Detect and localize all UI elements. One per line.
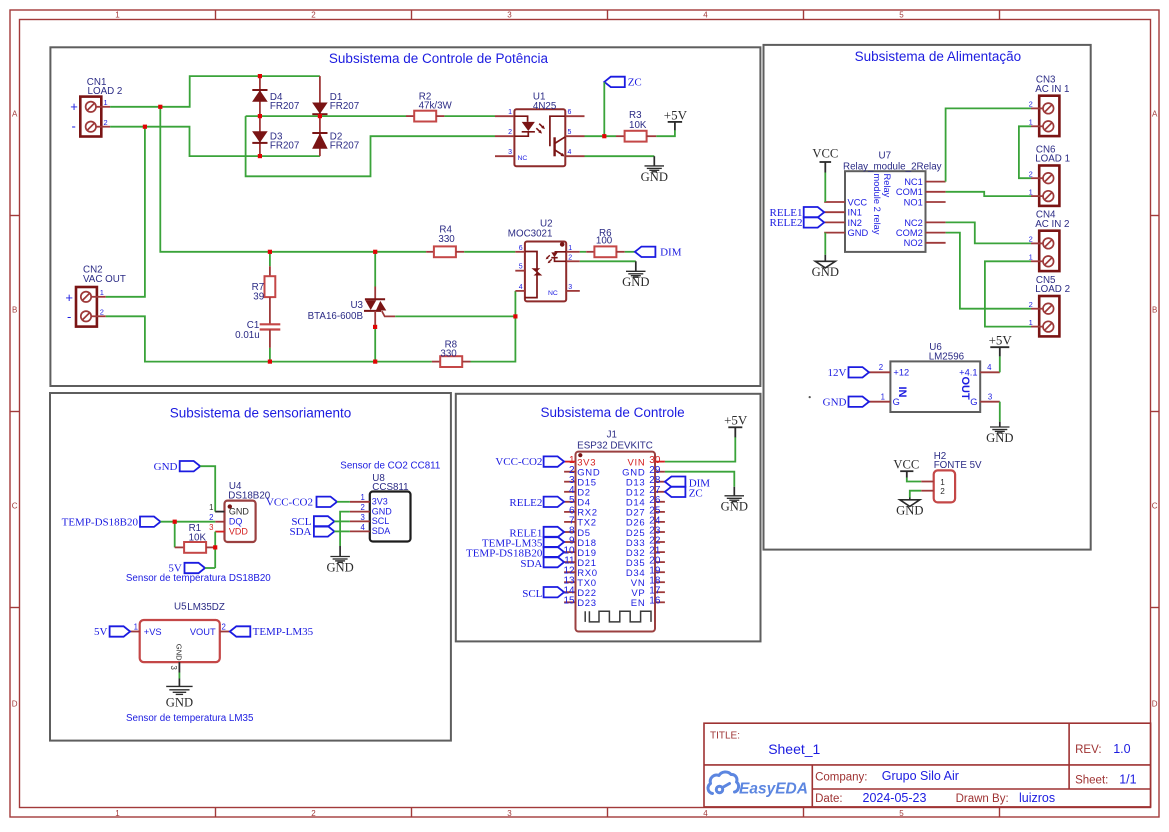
J1 pin 13 TX0 xyxy=(564,581,575,583)
sensor U5 LM35DZ xyxy=(140,620,220,662)
ground GND (U7) xyxy=(824,255,826,261)
svg-text:5: 5 xyxy=(568,129,572,136)
net flag RELE1 (J1) xyxy=(544,527,565,537)
svg-text:IN: IN xyxy=(896,387,908,398)
svg-text:DQ: DQ xyxy=(229,517,243,527)
svg-text:IN1: IN1 xyxy=(848,208,862,218)
wire COM2 to CN5.2 xyxy=(946,233,1031,309)
U1 internal light arrows xyxy=(539,124,543,128)
U1 pin 3 NC xyxy=(495,155,514,157)
J1 pin 26 D14 xyxy=(655,501,665,503)
wire U2 pin1 to R6 xyxy=(580,251,586,253)
svg-text:1: 1 xyxy=(104,98,108,107)
wire COM1 to CN6.1 xyxy=(946,192,1031,196)
J1 pin 17 VP xyxy=(655,591,665,593)
svg-text:FR207: FR207 xyxy=(270,101,299,112)
U1 pin 4 xyxy=(565,155,584,157)
J1 pin 15 D23 xyxy=(564,601,575,603)
U7 pin IN2 xyxy=(824,221,845,223)
wire CN2.1 riser to CN1.2 xyxy=(106,127,145,297)
svg-text:1: 1 xyxy=(100,288,104,297)
U2 pin 4 xyxy=(515,290,525,292)
svg-text:NO2: NO2 xyxy=(904,238,923,248)
U3 gate lead xyxy=(382,311,395,316)
svg-text:4: 4 xyxy=(703,809,708,818)
svg-text:NC: NC xyxy=(518,155,528,162)
U6 pin 1 G xyxy=(869,401,890,403)
wire U5 pin3 to GND xyxy=(178,673,180,679)
svg-text:SCL: SCL xyxy=(522,588,542,600)
capacitor C1 0.01u xyxy=(260,323,281,325)
J1 pin 18 VN xyxy=(655,581,665,583)
CN2 pin 1 xyxy=(91,296,106,298)
svg-text:REV:: REV: xyxy=(1075,744,1101,756)
U7 pin GND xyxy=(824,232,845,234)
wire CN1.1 to top rail xyxy=(110,76,320,107)
svg-text:GND: GND xyxy=(174,644,183,661)
power VCC (H2) xyxy=(900,470,913,472)
net flag DIM (J1) xyxy=(665,477,686,487)
header H2 FONTE 5V xyxy=(934,470,955,502)
U8 pin 1 3V3 xyxy=(350,501,370,503)
U2 pin1 polarity dot xyxy=(560,242,565,247)
J1 pin 7 TX2 xyxy=(564,521,575,523)
svg-text:AC IN 1: AC IN 1 xyxy=(1035,84,1069,95)
svg-text:4: 4 xyxy=(568,149,572,156)
wire VCC to U7 xyxy=(824,173,826,203)
svg-text:D23: D23 xyxy=(577,598,597,609)
net flag TEMP-DS18B20 xyxy=(140,517,161,527)
svg-text:GND: GND xyxy=(229,506,250,516)
svg-text:NC2: NC2 xyxy=(904,218,923,228)
svg-text:B: B xyxy=(12,306,17,315)
svg-text:Relay: Relay xyxy=(882,174,892,198)
regulator U6 LM2596 xyxy=(890,361,980,412)
svg-text:LM2596: LM2596 xyxy=(929,351,965,362)
wire CN2.2 to bottom rail xyxy=(106,316,432,361)
J1 pin 21 D32 xyxy=(655,551,665,553)
stray dot xyxy=(809,396,811,398)
svg-text:FR207: FR207 xyxy=(330,140,359,151)
U6 pin 3 G xyxy=(980,401,1000,403)
J1 pin 14 D22 xyxy=(564,591,575,593)
U4 pin1 dot xyxy=(228,504,232,508)
svg-text:SDA: SDA xyxy=(520,558,542,570)
triac U3 BTA16-600B xyxy=(374,252,376,287)
svg-text:2: 2 xyxy=(508,129,512,136)
wire U3 to bottom rail xyxy=(374,325,376,362)
svg-text:10K: 10K xyxy=(629,120,647,131)
U1 internal phototransistor xyxy=(550,116,565,146)
ground GND (U6) xyxy=(999,422,1001,427)
J1 pin 5 D4 xyxy=(564,501,575,503)
svg-text:NC1: NC1 xyxy=(904,177,923,187)
svg-text:1: 1 xyxy=(568,245,572,252)
J1 pin 24 D26 xyxy=(655,521,665,523)
resistor R7 39 (vertical) xyxy=(269,252,271,266)
U4 pin 2 DQ xyxy=(215,521,224,523)
J1 pin 10 D19 xyxy=(564,551,575,553)
svg-text:Company:: Company: xyxy=(815,772,867,784)
U2 internal LED xyxy=(551,252,566,261)
U7 pin IN1 xyxy=(824,211,845,213)
U2 internal light arrows xyxy=(547,255,550,258)
svg-text:GND: GND xyxy=(896,503,923,517)
J1 pin 12 RX0 xyxy=(564,571,575,573)
wire CN3.1 to CN6.2 xyxy=(1019,126,1031,178)
U2 pin 5 xyxy=(515,270,525,272)
svg-text:+VS: +VS xyxy=(144,627,162,637)
svg-text:5: 5 xyxy=(519,264,523,271)
svg-text:Grupo Silo Air: Grupo Silo Air xyxy=(882,769,959,783)
net flag RELE2 (U7) xyxy=(804,217,825,227)
wire GND pin29 xyxy=(665,472,734,487)
wire GND flag to U4 pin1 xyxy=(200,466,215,511)
svg-text:330: 330 xyxy=(438,234,455,245)
U1 pin 2 xyxy=(495,135,514,137)
resistor R8 330 xyxy=(432,361,440,363)
svg-text:Sheet_1: Sheet_1 xyxy=(768,741,820,757)
svg-text:-: - xyxy=(67,309,71,324)
svg-text:ZC: ZC xyxy=(628,77,642,89)
svg-text:U5: U5 xyxy=(174,601,187,612)
resistor R4 330 xyxy=(426,251,434,253)
svg-text:2: 2 xyxy=(311,809,316,818)
U7 pin COM2 xyxy=(926,232,946,234)
svg-text:330: 330 xyxy=(440,348,457,359)
svg-text:D: D xyxy=(1152,700,1158,709)
svg-text:2: 2 xyxy=(568,254,572,261)
svg-text:6: 6 xyxy=(519,245,523,252)
U1 internal LED xyxy=(514,116,535,136)
J1 pin 30 VIN xyxy=(655,461,665,463)
U7 pin COM1 xyxy=(926,191,946,193)
svg-text:VCC: VCC xyxy=(812,146,838,160)
svg-text:4N25: 4N25 xyxy=(533,101,557,112)
svg-text:NC: NC xyxy=(548,290,558,297)
subsystem box: Subsistema de Alimentacao xyxy=(764,45,1091,550)
svg-text:1.0: 1.0 xyxy=(1113,742,1130,756)
svg-text:ZC: ZC xyxy=(689,488,703,500)
H2 pin 1 xyxy=(921,481,934,483)
net flag SCL (J1) xyxy=(544,587,565,597)
subsystem box: Subsistema de sensoriamento xyxy=(50,393,451,741)
wire VIN to +5V xyxy=(665,437,735,462)
svg-text:2: 2 xyxy=(311,11,316,20)
resistor R3 10K xyxy=(616,135,625,137)
svg-text:GND: GND xyxy=(641,170,668,184)
net flag GND (DS18B20) xyxy=(180,461,201,471)
H2 pin 2 xyxy=(921,490,934,492)
ground GND at U1 pin4 xyxy=(653,156,655,166)
sensor U4 DS18B20 xyxy=(225,501,256,542)
opto-triac U2 MOC3021 xyxy=(525,242,566,302)
svg-text:J1: J1 xyxy=(607,430,617,441)
svg-text:2: 2 xyxy=(360,503,364,512)
J1 pin1 dot xyxy=(578,453,582,457)
svg-text:3: 3 xyxy=(507,809,512,818)
wire VCC to H2 pin1 xyxy=(907,478,921,482)
subsystem box: Subsistema de Controle xyxy=(456,394,761,642)
wire SDA to U8 pin4 xyxy=(334,530,350,532)
svg-text:ESP32 DEVKITC: ESP32 DEVKITC xyxy=(577,441,653,452)
U8 pin 2 GND xyxy=(350,511,370,513)
wire 5V flag stub xyxy=(205,567,215,569)
title block frame xyxy=(704,723,1151,807)
U2 internal triac path xyxy=(525,252,537,298)
J1 pin 11 D21 xyxy=(564,561,575,563)
svg-text:1: 1 xyxy=(209,503,213,512)
svg-text:GND: GND xyxy=(372,506,393,516)
net flag VCC-CO2 xyxy=(317,497,338,507)
svg-text:EN: EN xyxy=(631,598,646,609)
svg-text:+5V: +5V xyxy=(989,333,1013,348)
U2 internal triac triangles xyxy=(532,268,541,272)
svg-text:TEMP-DS18B20: TEMP-DS18B20 xyxy=(62,516,139,528)
svg-text:VCC-CO2: VCC-CO2 xyxy=(266,496,313,508)
svg-text:LOAD 2: LOAD 2 xyxy=(88,86,123,97)
net flag 5V xyxy=(185,563,206,573)
svg-text:GND: GND xyxy=(154,461,178,473)
svg-text:BTA16-600B: BTA16-600B xyxy=(308,311,364,322)
svg-text:NO1: NO1 xyxy=(904,197,923,207)
wire R2 to U1 pin1 xyxy=(444,115,495,117)
svg-text:Subsistema de Controle: Subsistema de Controle xyxy=(541,405,685,420)
svg-text:47k/3W: 47k/3W xyxy=(419,101,453,112)
svg-text:3: 3 xyxy=(169,666,178,670)
connector CN2 VAC OUT xyxy=(76,287,97,327)
EasyEDA logo xyxy=(708,772,739,794)
J1 pin 23 D25 xyxy=(655,531,665,533)
J1 pin 22 D33 xyxy=(655,541,665,543)
svg-text:2: 2 xyxy=(100,307,104,316)
connector CN6 LOAD 1 xyxy=(1039,166,1059,206)
J1 pin 27 D12 xyxy=(655,491,665,493)
U5 pin 1 +VS xyxy=(130,631,140,633)
J1 pin 19 D34 xyxy=(655,571,665,573)
wire bridge mid rail to R2 xyxy=(246,115,406,117)
svg-text:+12: +12 xyxy=(893,368,909,378)
wire U4 pin3 to 5V xyxy=(214,532,216,568)
J1 pin 3 D15 xyxy=(564,481,575,483)
J1 pin 29 GND xyxy=(655,471,665,473)
wire C1 to bottom rail xyxy=(269,348,271,362)
U1 pin 5 xyxy=(565,135,584,137)
J1 pin 4 D2 xyxy=(564,491,575,493)
U4 pin 1 GND xyxy=(215,511,224,513)
J1 pin 25 D27 xyxy=(655,511,665,513)
svg-text:G: G xyxy=(893,397,900,407)
svg-text:2: 2 xyxy=(1029,235,1033,244)
U5 pin 2 VOUT xyxy=(220,631,230,633)
svg-text:+4.1: +4.1 xyxy=(959,368,977,378)
svg-text:GND: GND xyxy=(721,500,748,514)
resistor R1 10K xyxy=(175,546,184,548)
wire SCL to U8 pin3 xyxy=(334,520,350,522)
svg-text:GND: GND xyxy=(986,431,1013,445)
U2 pin 1 xyxy=(566,251,580,253)
wire down to R1 xyxy=(174,522,176,548)
svg-text:1: 1 xyxy=(508,109,512,116)
svg-text:D: D xyxy=(12,700,18,709)
svg-text:5: 5 xyxy=(899,11,904,20)
svg-text:4: 4 xyxy=(519,284,523,291)
svg-text:-: - xyxy=(72,119,76,134)
svg-text:AC IN 2: AC IN 2 xyxy=(1035,219,1069,230)
svg-text:luizros: luizros xyxy=(1019,791,1055,805)
svg-text:DIM: DIM xyxy=(660,246,682,258)
U6 pin 4 +4.1 xyxy=(980,371,1000,373)
module J1 ESP32 DEVKITC xyxy=(576,452,656,632)
svg-text:C: C xyxy=(12,502,18,511)
U7 pin NC2 xyxy=(926,221,946,223)
wire U2 pin2 to GND xyxy=(580,260,636,262)
U5 pin 3 GND (rotated) xyxy=(178,662,180,672)
wire NC2 to CN4.2 xyxy=(946,222,1031,243)
U4 pin 3 VDD xyxy=(215,531,224,533)
power +5V xyxy=(668,121,682,123)
svg-text:1/1: 1/1 xyxy=(1119,772,1136,786)
svg-text:3: 3 xyxy=(988,393,992,402)
connector CN5 LOAD 2 xyxy=(1039,296,1059,336)
wire U6 pin3 to GND xyxy=(999,402,1001,422)
svg-text:FR207: FR207 xyxy=(270,140,299,151)
svg-text:C: C xyxy=(1152,502,1158,511)
svg-text:GND: GND xyxy=(166,696,193,710)
svg-text:VCC: VCC xyxy=(893,458,919,472)
svg-text:3: 3 xyxy=(507,11,512,20)
svg-text:1: 1 xyxy=(115,809,120,818)
svg-text:TEMP-LM35: TEMP-LM35 xyxy=(253,626,314,638)
power VCC (U7) xyxy=(820,161,832,163)
U6 pin 2 +12 xyxy=(869,371,890,373)
svg-text:Subsistema de Controle de Potê: Subsistema de Controle de Potência xyxy=(329,51,549,66)
svg-text:15: 15 xyxy=(563,596,575,607)
svg-text:IN2: IN2 xyxy=(848,218,862,228)
svg-text:Sensor de CO2 CC811: Sensor de CO2 CC811 xyxy=(340,460,440,471)
svg-text:FONTE 5V: FONTE 5V xyxy=(934,460,982,471)
wire U6 out to +5V xyxy=(999,356,1001,372)
U7 pin VCC xyxy=(824,201,845,203)
wire R8 to gate node xyxy=(471,316,516,361)
J1 pin 20 D35 xyxy=(655,561,665,563)
svg-text:GND: GND xyxy=(326,560,353,574)
svg-text:U3: U3 xyxy=(350,300,363,311)
net flag RELE2 (J1) xyxy=(544,497,565,507)
svg-text:CCS811: CCS811 xyxy=(372,482,408,493)
diode D2 FR207 xyxy=(319,116,321,156)
svg-text:2: 2 xyxy=(209,513,213,522)
J1 antenna squiggle xyxy=(585,611,651,622)
subsystem box: Subsistema de Controle de Potencia xyxy=(50,47,760,386)
J1 pin 16 EN xyxy=(655,601,665,603)
svg-text:12V: 12V xyxy=(828,367,847,379)
wire U3 gate to node xyxy=(395,315,515,317)
svg-text:TITLE:: TITLE: xyxy=(710,731,740,742)
net flag TEMP-DS18B20 (J1) xyxy=(544,547,565,557)
svg-text:B: B xyxy=(1152,306,1157,315)
power +5V (U6) xyxy=(990,346,1009,348)
svg-text:LM35DZ: LM35DZ xyxy=(187,602,225,613)
svg-text:+5V: +5V xyxy=(664,107,688,122)
svg-text:Subsistema de sensoriamento: Subsistema de sensoriamento xyxy=(170,406,352,421)
svg-text:SCL: SCL xyxy=(372,516,390,526)
svg-text:+: + xyxy=(65,290,73,305)
svg-text:3: 3 xyxy=(508,149,512,156)
svg-text:5V: 5V xyxy=(94,626,108,638)
svg-text:3: 3 xyxy=(209,523,213,532)
svg-text:+5V: +5V xyxy=(724,413,748,428)
resistor R6 100 xyxy=(586,251,594,253)
net flag ZC (J1) xyxy=(665,487,686,497)
wire CN1.1 riser to rail2 xyxy=(160,107,426,252)
svg-text:2: 2 xyxy=(1029,100,1033,109)
ground GND below U8 xyxy=(339,546,341,557)
svg-text:100: 100 xyxy=(596,236,613,247)
svg-text:Drawn By:: Drawn By: xyxy=(956,793,1009,805)
net flag SDA xyxy=(314,526,335,536)
svg-text:VDD: VDD xyxy=(229,527,249,537)
U7 pin NO1 xyxy=(926,201,946,203)
wire U1 pin5 to node xyxy=(585,135,617,137)
U2 pin 2 xyxy=(566,260,580,262)
diode D4 FR207 xyxy=(259,76,261,116)
svg-text:FR207: FR207 xyxy=(330,101,359,112)
CN1 pin 2 xyxy=(96,126,110,128)
net flag ZC xyxy=(604,77,625,87)
svg-text:+: + xyxy=(70,99,78,114)
ground GND below U5 xyxy=(178,679,180,687)
wire R3 to +5V xyxy=(656,130,675,136)
net flag RELE1 (U7) xyxy=(804,207,825,217)
svg-text:SDA: SDA xyxy=(289,526,311,538)
resistor R2 47k/3W xyxy=(406,115,414,117)
svg-text:1: 1 xyxy=(940,478,945,487)
svg-text:COM2: COM2 xyxy=(896,228,923,238)
svg-text:1: 1 xyxy=(1029,187,1033,196)
U8 pin 3 SCL xyxy=(350,520,370,522)
J1 pin 28 D13 xyxy=(655,481,665,483)
wire U7 GND down xyxy=(824,233,826,255)
svg-text:4: 4 xyxy=(987,363,992,372)
wire CN3.2 to NC1 xyxy=(946,108,1031,181)
svg-text:EasyEDA: EasyEDA xyxy=(739,781,808,798)
svg-text:GND: GND xyxy=(622,275,649,289)
wire TEMP-DS18B20 to U4 pin2 xyxy=(161,521,216,523)
svg-text:5: 5 xyxy=(899,809,904,818)
svg-text:1: 1 xyxy=(1029,253,1033,262)
net flag 12V xyxy=(849,367,870,377)
wire ZC to node xyxy=(603,82,605,136)
svg-text:4: 4 xyxy=(360,523,365,532)
U7 pin NC1 xyxy=(926,181,946,183)
net flag DIM xyxy=(635,247,656,257)
sensor U8 CCS811 xyxy=(370,492,411,542)
wire mid-rail jog to U1 pin2 xyxy=(246,116,495,176)
svg-text:6: 6 xyxy=(568,109,572,116)
U2 pin 3 xyxy=(566,290,580,292)
net flag 5V (LM35) xyxy=(110,626,131,636)
svg-text:LOAD 1: LOAD 1 xyxy=(1035,154,1070,165)
connector CN1 LOAD 2 xyxy=(80,97,101,137)
svg-text:COM1: COM1 xyxy=(896,187,923,197)
svg-text:Sensor de temperatura LM35: Sensor de temperatura LM35 xyxy=(126,713,254,724)
svg-text:1: 1 xyxy=(115,11,120,20)
svg-text:4: 4 xyxy=(703,11,708,20)
svg-text:VCC-CO2: VCC-CO2 xyxy=(495,456,542,468)
svg-text:1: 1 xyxy=(1029,118,1033,127)
ground GND below DIM xyxy=(635,261,637,271)
